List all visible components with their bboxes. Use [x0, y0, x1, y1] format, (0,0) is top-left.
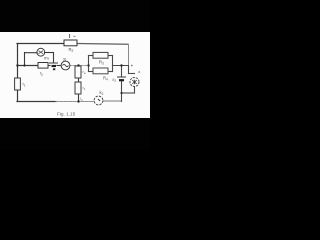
- svg-text:S: S: [63, 57, 66, 62]
- svg-text:ra: ra: [83, 69, 86, 75]
- svg-text:I2: I2: [80, 97, 83, 102]
- wire: E2 branch upper: [121, 66, 123, 77]
- wire: inner node wire between battery and source S: [57, 65, 61, 67]
- galvanometer G circle: [130, 78, 139, 87]
- wire: G branch from corner down: [128, 66, 130, 74]
- wire: right rail of R3/R4: [112, 56, 114, 72]
- ammeter A1 circle: [37, 48, 45, 56]
- resistor R2 box on top wire: [64, 40, 77, 46]
- wire: exit wire to right outer: [113, 65, 129, 67]
- wire: bottom horizontal right of meter: [103, 100, 121, 102]
- wire: meter to elbow: [45, 52, 53, 54]
- svg-text:ε2: ε2: [113, 77, 117, 83]
- wire: inner node wire between Rp and battery: [48, 65, 50, 67]
- wire: left vertical lower: [17, 90, 19, 101]
- resistor RA box (middle branch upper): [75, 66, 81, 78]
- svg-text:r1: r1: [83, 85, 86, 91]
- wire: bottom stub left rail to R4: [89, 71, 94, 73]
- wire: bottom horizontal solid: [17, 101, 56, 103]
- wire: bottom horizontal faint middle: [56, 101, 94, 103]
- wire: G branch jog right: [129, 73, 135, 75]
- node dot: middle branch top: [77, 64, 79, 66]
- svg-text:k2: k2: [100, 90, 104, 96]
- tick mark near node at right corner: [131, 65, 133, 66]
- wire: meter branch horizontal y=53: [25, 52, 38, 54]
- wire: middle branch bottom stub: [78, 94, 80, 102]
- wire: faint feed wire from S to left rail: [70, 65, 88, 67]
- svg-text:r1: r1: [23, 82, 26, 88]
- battery E2: [117, 77, 126, 80]
- AC source S circle: [61, 61, 70, 70]
- wire: G elbow horizontal to E2 branch: [122, 92, 135, 94]
- resistor RB box (middle branch lower): [75, 82, 81, 94]
- battery E1: [49, 63, 58, 70]
- letterbox band top: [0, 0, 150, 32]
- svg-text:R3: R3: [99, 60, 104, 66]
- node dot: middle branch bottom: [77, 100, 79, 102]
- resistor R4 box (bottom of parallel pair): [93, 68, 108, 74]
- wire: G circle bottom to elbow: [134, 88, 136, 94]
- wire: R4 to right rail: [108, 71, 113, 73]
- node dot: riser junction: [23, 64, 25, 66]
- wire: left rail of R3/R4: [88, 56, 90, 72]
- resistor R1 box on left wire: [15, 78, 21, 90]
- wire: middle branch between boxes: [78, 78, 80, 82]
- node dot: left rail feed: [87, 64, 89, 66]
- page background: [0, 32, 150, 118]
- wire: E2 branch lower: [121, 82, 123, 102]
- svg-text:R2: R2: [69, 47, 74, 53]
- wire: right vertical outer: [128, 44, 130, 65]
- wire: top horizontal right of R2: [77, 43, 128, 46]
- node dot: G elbow junction: [120, 92, 122, 94]
- wire: inner node wire y=65 left: [17, 65, 38, 67]
- resistor Rp box (series with E1): [38, 63, 48, 69]
- svg-text:R4: R4: [103, 76, 108, 82]
- svg-text:Fig. 1.15: Fig. 1.15: [57, 111, 76, 116]
- node dot: E2 branch top: [120, 64, 122, 66]
- wire: left vertical: [17, 44, 19, 79]
- svg-text:mv: mv: [44, 56, 50, 61]
- wire: R3 to right rail: [108, 55, 113, 57]
- node dot: left wire / inner wire: [16, 64, 18, 66]
- bottom meter circle: [94, 96, 103, 105]
- resistor R3 box (top of parallel pair): [93, 52, 108, 58]
- letterbox band bottom: [0, 118, 150, 150]
- wire: riser x=24: [24, 53, 26, 66]
- wire: elbow down to battery E1: [53, 53, 55, 63]
- wire: middle branch top stub: [78, 65, 80, 68]
- wire: top horizontal left of R2: [17, 43, 64, 45]
- wire: top stub left rail to R3: [89, 55, 94, 57]
- svg-text:rp: rp: [40, 71, 43, 77]
